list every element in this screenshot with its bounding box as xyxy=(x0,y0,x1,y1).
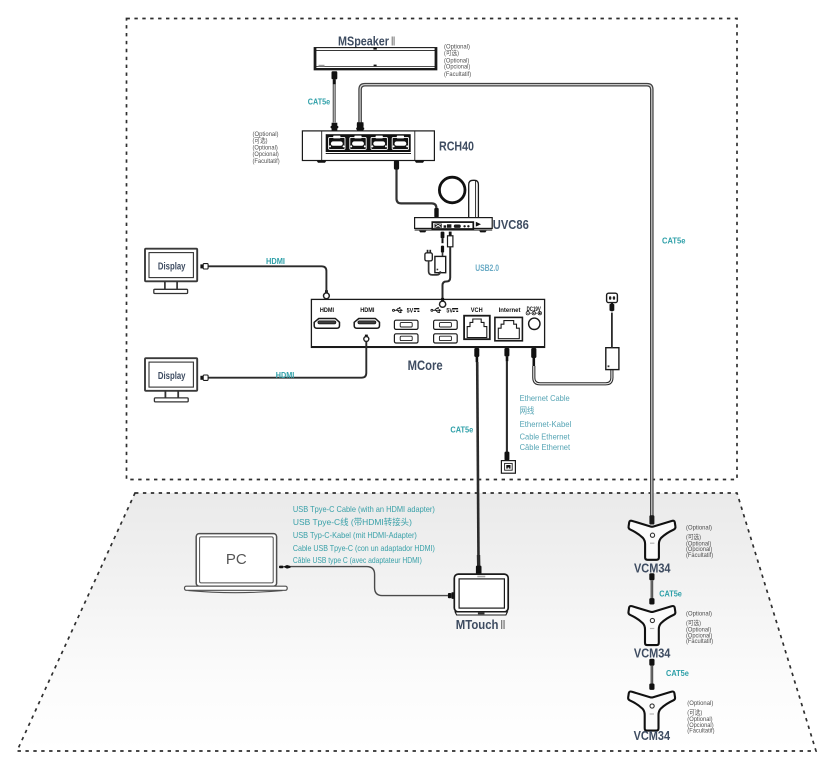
wire DC19V MCore to power adapter xyxy=(531,348,612,384)
wire CAT5e into MTouch (from MCore VCH) xyxy=(476,555,482,574)
laptop PC xyxy=(185,534,288,593)
wire HDMI MCore to Display2 xyxy=(200,335,368,381)
svg-text:PC: PC xyxy=(226,551,247,568)
label USB Type-C block xyxy=(293,504,435,565)
svg-text:CAT5e: CAT5e xyxy=(666,669,689,678)
wire long CAT5e RCH40 to VCM34 (up, right, down) xyxy=(356,85,652,516)
svg-text:网线: 网线 xyxy=(520,405,535,415)
svg-text:HDMI: HDMI xyxy=(266,257,285,266)
svg-text:VCM34: VCM34 xyxy=(634,560,671,575)
feet xyxy=(317,161,327,163)
svg-text:RCH40: RCH40 xyxy=(439,138,474,153)
svg-text:VCH: VCH xyxy=(471,307,483,314)
svg-text:Câble Ethernet: Câble Ethernet xyxy=(520,442,571,452)
svg-text:II: II xyxy=(391,33,395,48)
touch panel MTouch II xyxy=(454,574,508,615)
svg-text:USB2.0: USB2.0 xyxy=(475,263,499,273)
svg-text:Cable Ethernet: Cable Ethernet xyxy=(520,432,571,442)
wire CAT5e MSpeaker to RCH40 xyxy=(331,71,339,131)
monitor Display 2 xyxy=(145,358,197,402)
wall socket (ethernet) xyxy=(501,461,515,474)
svg-text:(Facultatif): (Facultatif) xyxy=(444,71,471,78)
optional note (VCM34 #1) xyxy=(686,524,713,559)
connector gray-cable end at VCM34 #1 xyxy=(649,515,654,524)
svg-text:UVC86: UVC86 xyxy=(493,217,529,232)
svg-text:HDMI: HDMI xyxy=(320,307,334,314)
base xyxy=(415,218,493,229)
arrow on base xyxy=(476,222,481,227)
svg-text:(Opcional): (Opcional) xyxy=(444,64,470,71)
power adapter (MCore) xyxy=(606,293,619,369)
HDMI port 1 xyxy=(314,319,339,329)
power adapter of UVC86 xyxy=(425,232,446,275)
usb icons on labels xyxy=(393,307,442,313)
svg-text:HDMI: HDMI xyxy=(276,371,295,380)
svg-text:(Facultatif): (Facultatif) xyxy=(253,158,280,165)
svg-text:CAT5e: CAT5e xyxy=(450,426,473,435)
svg-text:MTouch: MTouch xyxy=(456,617,499,632)
svg-text:USB Tpye-C线 (带HDMI转接头): USB Tpye-C线 (带HDMI转接头) xyxy=(293,517,412,527)
wire Ethernet MCore to wall socket xyxy=(504,348,509,461)
microphone VCM34 #3 xyxy=(628,692,675,731)
dc/solid symbols after 5V xyxy=(414,309,458,312)
label MSpeaker II title xyxy=(338,33,395,48)
HDMI port 2 xyxy=(354,319,379,329)
table surface (bottom trapezoid) xyxy=(17,493,816,751)
dashed border of top rectangle xyxy=(127,19,738,480)
svg-text:II: II xyxy=(501,617,506,632)
wire HDMI Display1 to MCore xyxy=(200,264,326,293)
connector USB2.0 plug on MCore top xyxy=(440,298,446,307)
svg-text:MCore: MCore xyxy=(408,358,443,373)
wire USB2.0 UVC86 to MCore xyxy=(443,232,453,300)
DC19V port xyxy=(529,318,540,329)
svg-text:CAT5e: CAT5e xyxy=(659,589,682,598)
wire CAT5e MCore VCH to MTouch xyxy=(474,348,479,561)
svg-text:5V: 5V xyxy=(407,308,414,314)
power brick xyxy=(435,256,446,272)
VCH port xyxy=(464,316,490,340)
4 charging ports xyxy=(329,136,345,150)
svg-text:MSpeaker: MSpeaker xyxy=(338,33,389,48)
microphone VCM34 #2 xyxy=(628,606,675,645)
speaker MSpeaker II body xyxy=(314,47,437,70)
USB ports group 1 xyxy=(394,320,418,343)
hub MCore box xyxy=(311,299,544,347)
svg-text:Internet: Internet xyxy=(499,307,522,314)
svg-text:USB Typ-C-Kabel (mit HDMI-Adap: USB Typ-C-Kabel (mit HDMI-Adapter) xyxy=(293,530,417,540)
lens head xyxy=(439,177,465,203)
svg-text:Ethernet-Kabel: Ethernet-Kabel xyxy=(520,419,572,429)
optional note (MSpeaker) xyxy=(444,43,471,78)
svg-text:(Opcional): (Opcional) xyxy=(253,151,279,158)
charger hub RCH40 xyxy=(302,131,434,163)
svg-text:Cable USB Tpye-C (con un adapt: Cable USB Tpye-C (con un adaptador HDMI) xyxy=(293,543,435,553)
label Ethernet Cable block xyxy=(520,393,572,452)
svg-text:(可选): (可选) xyxy=(444,48,459,57)
optional note (VCM34 #2) xyxy=(686,611,713,646)
MCore port labels xyxy=(320,306,542,314)
svg-text:Ethernet Cable: Ethernet Cable xyxy=(520,393,570,403)
wire CAT5e VCM34 1-2 xyxy=(649,573,654,604)
camera UVC86 xyxy=(415,177,493,232)
wire RCH40 to UVC86 xyxy=(394,161,439,218)
wall plug xyxy=(425,253,432,261)
svg-text:Câble USB type C (avec adaptat: Câble USB type C (avec adaptateur HDMI) xyxy=(293,555,422,565)
dashed border of bottom trapezoid xyxy=(17,493,816,751)
wire CAT5e VCM34 2-3 xyxy=(649,659,654,690)
svg-text:VCM34: VCM34 xyxy=(634,646,671,661)
svg-text:CAT5e: CAT5e xyxy=(308,97,331,106)
svg-text:Display: Display xyxy=(158,371,186,382)
optional note (VCM34 #3) xyxy=(687,700,714,735)
connector HDMI1 plug on MCore top xyxy=(324,290,330,298)
microphone VCM34 #1 xyxy=(629,521,676,560)
USB ports group 2 xyxy=(434,320,458,343)
svg-text:Display: Display xyxy=(158,262,186,273)
svg-text:USB Tpye-C Cable (with an HDMI: USB Tpye-C Cable (with an HDMI adapter) xyxy=(293,504,435,514)
svg-text:VCM34: VCM34 xyxy=(634,728,671,743)
svg-text:(可选): (可选) xyxy=(253,135,268,144)
Internet port xyxy=(495,317,523,340)
connector pieces below camera xyxy=(441,232,445,239)
ports panel xyxy=(432,222,473,229)
wire USB-C PC to MTouch xyxy=(279,565,455,599)
svg-text:HDMI: HDMI xyxy=(360,307,374,314)
plug wire xyxy=(429,261,441,275)
svg-text:CAT5e: CAT5e xyxy=(662,237,686,246)
optional note (RCH40 left) xyxy=(253,131,280,165)
monitor Display 1 xyxy=(145,249,197,294)
arm xyxy=(469,180,479,218)
dc symbols xyxy=(526,312,541,315)
svg-text:5V: 5V xyxy=(446,308,453,314)
